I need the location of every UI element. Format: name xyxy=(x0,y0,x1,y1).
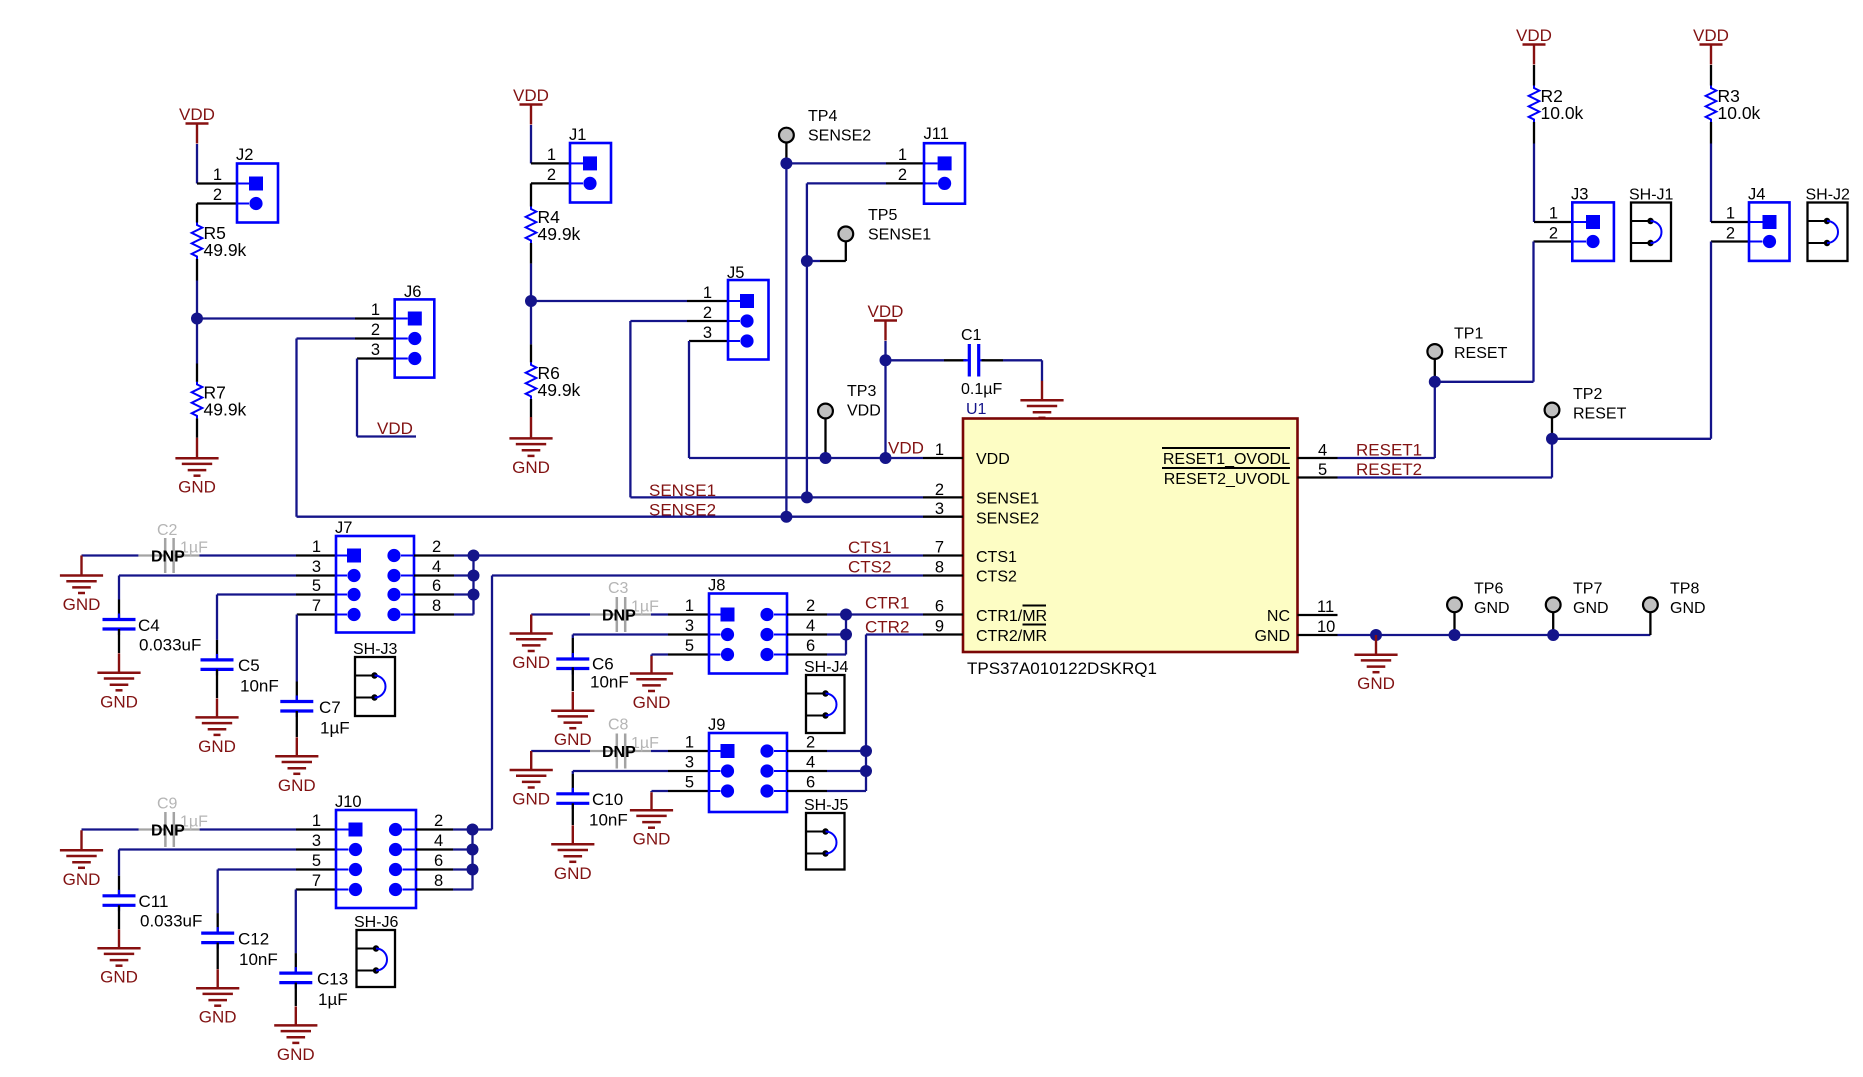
svg-text:CTS2: CTS2 xyxy=(848,558,891,577)
pin number 1 of J6 xyxy=(371,301,380,319)
wire R2 down to J3 pin 1 xyxy=(1533,144,1535,223)
shunt jumper SH-J2 xyxy=(1806,187,1851,262)
capacitor C5 10nF xyxy=(201,654,279,696)
wire C4 top lead xyxy=(118,600,120,620)
connector J3 xyxy=(1571,186,1614,261)
pin number 6 of U1 xyxy=(935,598,944,616)
svg-text:CTR1: CTR1 xyxy=(865,594,909,613)
capacitor C1 0.1uF xyxy=(961,327,1002,398)
svg-text:49.9k: 49.9k xyxy=(538,224,581,244)
svg-text:0.033uF: 0.033uF xyxy=(140,912,202,931)
wire J7 pin 8 stub xyxy=(414,613,454,615)
pin number 1 of J9 xyxy=(685,734,694,752)
wire C9 GND segment xyxy=(82,828,139,830)
wire TP3 stub xyxy=(824,418,826,458)
svg-text:7: 7 xyxy=(312,872,321,890)
wire J5 pin 2 down to SENSE1 net xyxy=(629,321,631,497)
svg-text:3: 3 xyxy=(703,324,712,342)
wire C8 to J9 pin 1 xyxy=(651,750,668,752)
wire J5 pin 2 stub xyxy=(687,320,728,322)
svg-text:SH-J5: SH-J5 xyxy=(804,797,849,814)
wire TP5 stub left xyxy=(820,260,846,262)
wire J1 pin 2 stub xyxy=(531,182,570,184)
wire GND net from U1 pin 10 xyxy=(1338,634,1651,636)
pin name CTR2/MR of U1 xyxy=(976,628,1047,645)
net label RESET2 xyxy=(1356,460,1422,479)
wire J7 pin 5 down to C5 xyxy=(216,595,218,640)
wire TP6 stub xyxy=(1453,612,1455,635)
svg-text:GND: GND xyxy=(100,692,138,711)
power flag VDD (R2 branch) xyxy=(1516,26,1552,64)
wire J9 pin 6 stub xyxy=(787,790,827,792)
pin number 5 of J7 xyxy=(312,577,321,595)
ground symbol at C3 branch xyxy=(510,615,553,673)
wire VDD row to U1 pin 1 xyxy=(689,457,923,459)
svg-text:C1: C1 xyxy=(961,327,982,344)
svg-text:3: 3 xyxy=(935,500,944,518)
pin number 3 of J7 xyxy=(312,558,321,576)
svg-text:2: 2 xyxy=(703,304,712,322)
svg-text:8: 8 xyxy=(432,597,441,615)
wire J10 pin 6 to tie xyxy=(453,868,473,870)
svg-text:6: 6 xyxy=(806,637,815,655)
wire J11 pin 1 stub xyxy=(886,162,926,164)
svg-text:6: 6 xyxy=(935,598,944,616)
pin number 3 of J9 xyxy=(685,754,694,772)
wire J9 pin 4 to tie xyxy=(827,770,866,772)
wire U1 pin 1 stub (VDD) xyxy=(923,457,963,459)
wire J3 pin 2 stub xyxy=(1534,240,1573,242)
wire J5 pin 2 left segment xyxy=(630,320,687,322)
junction TP6 on GND net xyxy=(1449,629,1461,641)
svg-text:11: 11 xyxy=(1317,598,1334,616)
wire VDD stem to J2 pin 1 row xyxy=(196,144,198,184)
wire J10 pin 2 to tie xyxy=(453,828,473,830)
pin number 2 of J8 xyxy=(806,597,815,615)
svg-text:RESET1_OVODL: RESET1_OVODL xyxy=(1163,451,1290,468)
pin name RESET2_UVODL of U1 xyxy=(1164,471,1290,488)
wire J10 pin 5 down to C12 xyxy=(217,870,219,914)
wire U1 pin 6 stub (CTR1/MR) xyxy=(923,613,963,615)
wire C12 top lead xyxy=(217,913,219,933)
wire C7 to GND xyxy=(296,711,298,737)
wire R5 bottom lead xyxy=(196,259,198,281)
junction J10 tie pin 2 xyxy=(467,824,479,836)
resistor R5 49.9k xyxy=(192,223,247,261)
connector J7 xyxy=(335,519,414,633)
wire J10 pin 3 net xyxy=(119,848,296,850)
junction J7 tie pin 2 xyxy=(468,550,480,562)
junction J9 tie pin 2 xyxy=(860,745,872,757)
net label CTS2 xyxy=(848,558,891,577)
wire SENSE2 vertical from TP4 node xyxy=(785,163,787,516)
wire J8 pin 5 net xyxy=(652,653,669,655)
svg-text:1: 1 xyxy=(547,146,556,164)
svg-text:7: 7 xyxy=(312,597,321,615)
pin name NC of U1 xyxy=(1267,608,1290,625)
junction VDD/C1 node xyxy=(880,354,892,366)
wire SENSE1 net to U1 pin 2 xyxy=(630,496,923,498)
svg-text:5: 5 xyxy=(685,774,694,792)
svg-text:49.9k: 49.9k xyxy=(538,380,581,400)
wire U1 pin 5 stub (RESET2_UVODL) xyxy=(1298,476,1338,478)
wire C12 to GND xyxy=(217,943,219,969)
test point TP4 xyxy=(779,108,871,145)
net label CTR2 xyxy=(865,618,909,637)
pin number 2 of J1 xyxy=(547,166,556,184)
wire J2 pin 2 stub xyxy=(197,202,237,204)
svg-text:6: 6 xyxy=(806,774,815,792)
wire J9 pin 3 net xyxy=(573,770,668,772)
svg-text:5: 5 xyxy=(312,577,321,595)
svg-text:VDD: VDD xyxy=(868,302,904,321)
svg-text:7: 7 xyxy=(935,539,944,557)
wire TP2 node down to RESET2 row xyxy=(1551,439,1553,478)
resistor R6 49.9k xyxy=(526,362,581,400)
wire J8 tie chain vertical xyxy=(845,615,847,655)
svg-text:6: 6 xyxy=(432,577,441,595)
pin number 2 of J7 xyxy=(432,538,441,556)
svg-text:J2: J2 xyxy=(236,146,253,164)
ground symbol at J9 pin 5 xyxy=(630,792,673,849)
ground symbol at U1 GND net xyxy=(1354,635,1397,693)
svg-text:3: 3 xyxy=(371,341,380,359)
svg-text:DNP: DNP xyxy=(151,549,185,566)
wire C11 top lead xyxy=(118,876,120,896)
svg-text:GND: GND xyxy=(199,1008,237,1027)
ground symbol at C2 branch xyxy=(60,556,103,615)
pin number 1 of J8 xyxy=(685,597,694,615)
junction J10 tie pin 4 xyxy=(467,844,479,856)
wire R2 bottom lead xyxy=(1533,122,1535,144)
wire C2 GND segment xyxy=(82,554,139,556)
pin number 1 of J5 xyxy=(703,284,712,302)
svg-text:SENSE2: SENSE2 xyxy=(649,501,716,520)
svg-text:GND: GND xyxy=(512,653,550,672)
pin number 2 of J9 xyxy=(806,734,815,752)
wire J7 pin 4 stub xyxy=(414,574,454,576)
resistor R2 10.0k xyxy=(1529,86,1584,124)
resistor R4 49.9k xyxy=(526,207,581,245)
svg-text:2: 2 xyxy=(1549,225,1558,243)
capacitor C7 1uF xyxy=(280,696,349,738)
pin number 3 of J10 xyxy=(312,832,321,850)
connector J8 xyxy=(708,577,787,674)
pin number 9 of U1 xyxy=(935,618,944,636)
svg-text:TP4: TP4 xyxy=(808,108,837,125)
resistor R3 10.0k xyxy=(1706,86,1761,124)
wire J1 pin 1 stub xyxy=(531,162,570,164)
svg-text:1: 1 xyxy=(312,812,321,830)
test point TP3 xyxy=(818,383,881,420)
wire TP2 stub xyxy=(1551,417,1553,438)
wire J6 pin 3 VDD label stub xyxy=(357,435,416,437)
wire J7 pin 7 stub xyxy=(297,613,336,615)
wire J10 pin 8 to tie xyxy=(453,888,473,890)
wire J10 pin 5 net xyxy=(218,868,296,870)
net label SENSE2 xyxy=(649,501,716,520)
wire J8 pin 3 down to C6 xyxy=(572,635,574,639)
wire C10 to GND xyxy=(572,803,574,825)
ground symbol below C13 xyxy=(274,1006,317,1064)
wire RESET1 net to U1 pin 4 xyxy=(1338,457,1435,459)
wire R3 down to J4 pin 1 xyxy=(1710,144,1712,223)
svg-text:VDD: VDD xyxy=(513,86,549,105)
wire J8 pin 4 to tie xyxy=(827,633,846,635)
pin number 7 of J10 xyxy=(312,872,321,890)
wire CTR2 net to U1 pin 9 xyxy=(866,633,923,635)
wire TP1 stub xyxy=(1434,359,1436,382)
connector J1 xyxy=(569,126,611,203)
wire U1 pin 4 stub (RESET1_OVODL) xyxy=(1298,457,1338,459)
pin number 1 of J7 xyxy=(312,538,321,556)
wire J9 pin 5 drop xyxy=(650,791,652,792)
junction TP3 on VDD row xyxy=(820,452,832,464)
wire C6 top lead xyxy=(572,638,574,658)
wire CTS2 to J10 tie chain xyxy=(473,828,493,830)
wire J7 pin 6 to tie xyxy=(454,593,474,595)
ground symbol below C11 xyxy=(97,929,140,987)
capacitor C2 1uF DNP xyxy=(138,522,208,573)
svg-text:2: 2 xyxy=(898,166,907,184)
wire TP2 node to J4 vertical xyxy=(1552,438,1711,440)
connector J11 xyxy=(924,125,966,204)
svg-text:C10: C10 xyxy=(592,790,623,809)
wire C7 top lead xyxy=(296,682,298,702)
wire C13 to GND xyxy=(295,983,297,1006)
junction J8 tie pin 4 xyxy=(840,629,852,641)
shunt jumper SH-J1 xyxy=(1629,187,1674,262)
svg-text:TP1: TP1 xyxy=(1454,326,1483,343)
pin number 5 of J10 xyxy=(312,852,321,870)
svg-text:VDD: VDD xyxy=(179,105,215,124)
wire J9 pin 3 stub xyxy=(668,770,709,772)
IC U1 TPS37A010122DSKRQ1 body xyxy=(963,401,1298,678)
junction TP1 node xyxy=(1429,376,1441,388)
svg-text:1: 1 xyxy=(935,441,944,459)
wire J10 pin 5 stub xyxy=(296,868,336,870)
svg-text:10nF: 10nF xyxy=(239,950,278,969)
wire R7 top lead xyxy=(196,364,198,382)
wire junction to J5 pin 1 xyxy=(531,300,687,302)
pin number 1 of J2 xyxy=(213,166,222,184)
capacitor C13 1uF xyxy=(279,967,348,1009)
wire J9 pin 2 stub xyxy=(787,750,827,752)
svg-text:1: 1 xyxy=(685,597,694,615)
wire J10 pin 6 stub xyxy=(416,868,453,870)
net label SENSE1 xyxy=(649,481,716,500)
svg-text:SH-J1: SH-J1 xyxy=(1629,187,1674,204)
svg-text:2: 2 xyxy=(213,186,222,204)
wire J10 tie chain vertical xyxy=(471,830,473,890)
junction TP7 on GND net xyxy=(1547,629,1559,641)
ground symbol below R7 xyxy=(175,438,218,497)
svg-text:1: 1 xyxy=(1549,205,1558,223)
svg-text:GND: GND xyxy=(198,737,236,756)
wire J9 pin 1 stub xyxy=(668,750,709,752)
svg-text:VDD: VDD xyxy=(1516,26,1552,45)
svg-text:C12: C12 xyxy=(238,930,269,949)
svg-text:10.0k: 10.0k xyxy=(1541,103,1584,123)
wire J10 pin 3 stub xyxy=(296,848,336,850)
capacitor C10 10nF xyxy=(556,788,627,830)
wire VDD stem down to J1 pin 1 row xyxy=(530,125,532,163)
svg-text:1: 1 xyxy=(312,538,321,556)
net label VDD at J6 pin 3 xyxy=(377,419,413,438)
svg-text:C5: C5 xyxy=(238,656,260,675)
svg-text:C8: C8 xyxy=(608,717,629,734)
pin name CTS1 of U1 xyxy=(976,549,1017,566)
svg-text:3: 3 xyxy=(312,558,321,576)
wire J10 pin 2 stub xyxy=(416,828,453,830)
svg-text:TP7: TP7 xyxy=(1573,581,1602,598)
pin number 1 of U1 xyxy=(935,441,944,459)
junction TP4 node xyxy=(780,157,792,169)
capacitor C4 0.033uF xyxy=(103,614,202,655)
wire J8 pin 4 stub xyxy=(787,633,827,635)
wire R4 to R6 through junction xyxy=(530,264,532,345)
ground symbol below C12 xyxy=(196,969,239,1026)
wire J6 pin 2 left segment xyxy=(297,337,356,339)
svg-text:GND: GND xyxy=(1357,674,1395,693)
wire TP4 stub xyxy=(785,143,787,164)
wire C1 GND drop xyxy=(1041,360,1043,381)
svg-text:TP5: TP5 xyxy=(868,207,897,224)
svg-text:5: 5 xyxy=(1318,461,1327,479)
svg-text:10nF: 10nF xyxy=(590,673,629,692)
junction J7 tie pin 4 xyxy=(468,570,480,582)
pin number 2 of J5 xyxy=(703,304,712,322)
pin number 6 of J7 xyxy=(432,577,441,595)
wire C10 top lead xyxy=(572,774,574,794)
svg-text:GND: GND xyxy=(1670,600,1706,617)
wire CTS2 net to U1 pin 8 xyxy=(492,574,923,576)
wire U1 pin 8 stub (CTS2) xyxy=(923,574,963,576)
svg-text:J6: J6 xyxy=(404,283,421,301)
wire J7 pin 5 net xyxy=(217,593,296,595)
wire J6 pin 2 down to SENSE2 net xyxy=(295,339,297,517)
svg-text:SENSE1: SENSE1 xyxy=(868,227,931,244)
svg-text:4: 4 xyxy=(1318,442,1327,460)
svg-text:3: 3 xyxy=(685,617,694,635)
wire J7 pin 2 stub xyxy=(414,554,454,556)
wire TP5 stub down xyxy=(845,241,847,261)
wire C1 node to C1 left plate xyxy=(886,359,945,361)
svg-text:2: 2 xyxy=(1726,225,1735,243)
wire CTS1 net J7 to U1 pin 7 xyxy=(474,554,924,556)
svg-text:TP3: TP3 xyxy=(847,383,876,400)
svg-text:10nF: 10nF xyxy=(240,677,279,696)
pin number 1 of J11 xyxy=(898,146,907,164)
junction TP2 node xyxy=(1546,433,1558,445)
svg-text:SH-J3: SH-J3 xyxy=(353,641,398,658)
svg-text:CTR1/MR: CTR1/MR xyxy=(976,608,1047,625)
wire VDD stem down to C1 node xyxy=(884,341,886,360)
svg-text:SENSE2: SENSE2 xyxy=(976,511,1039,528)
svg-text:SENSE1: SENSE1 xyxy=(976,491,1039,508)
wire J9 pin 6 to tie xyxy=(827,790,866,792)
svg-text:3: 3 xyxy=(312,832,321,850)
pin number 5 of U1 xyxy=(1318,461,1327,479)
pin number 11 of U1 xyxy=(1317,598,1334,616)
wire J10 pin 4 stub xyxy=(416,848,453,850)
wire J7 pin 3 net xyxy=(119,574,296,576)
pin name RESET1_OVODL of U1 xyxy=(1162,448,1290,468)
junction SENSE2/TP4 branch xyxy=(780,511,792,523)
junction GND symbol drop xyxy=(1370,629,1382,641)
ground symbol at C1 xyxy=(1020,381,1063,418)
svg-text:SENSE2: SENSE2 xyxy=(808,128,871,145)
wire J7 pin 2 to tie xyxy=(454,554,474,556)
svg-text:2: 2 xyxy=(434,812,443,830)
pin number 5 of J8 xyxy=(685,637,694,655)
wire C3 GND segment xyxy=(531,613,590,615)
pin name GND of U1 xyxy=(1254,628,1290,645)
svg-text:1: 1 xyxy=(371,301,380,319)
svg-text:CTR2: CTR2 xyxy=(865,618,909,637)
svg-text:GND: GND xyxy=(1573,600,1609,617)
wire J11 pin 2 stub xyxy=(886,182,926,184)
wire CTR2 vertical to J9 tie chain xyxy=(865,635,867,792)
svg-text:5: 5 xyxy=(685,637,694,655)
wire J6 pin 3 stub xyxy=(357,357,395,359)
power flag VDD (J2 branch) xyxy=(179,105,215,143)
wire J8 pin 2 stub xyxy=(787,613,827,615)
wire C4 to GND xyxy=(118,629,120,653)
wire J8 pin 5 stub xyxy=(668,653,709,655)
wire C5 to GND xyxy=(216,669,218,698)
pin number 1 of J3 xyxy=(1549,205,1558,223)
power flag VDD (R3 branch) xyxy=(1693,26,1729,64)
pin number 8 of J7 xyxy=(432,597,441,615)
pin number 2 of J6 xyxy=(371,321,380,339)
pin number 4 of J9 xyxy=(806,754,815,772)
test point TP2 xyxy=(1545,386,1627,423)
svg-text:C2: C2 xyxy=(157,522,178,539)
shunt jumper SH-J5 xyxy=(804,797,849,870)
svg-text:5: 5 xyxy=(312,852,321,870)
svg-text:U1: U1 xyxy=(966,401,987,418)
svg-text:RESET2_UVODL: RESET2_UVODL xyxy=(1164,471,1290,488)
svg-text:GND: GND xyxy=(278,776,316,795)
wire J3 pin 2 down xyxy=(1532,242,1534,382)
pin number 8 of J10 xyxy=(434,872,443,890)
svg-text:C3: C3 xyxy=(608,580,629,597)
wire U1 pin 2 stub (SENSE1) xyxy=(923,496,963,498)
capacitor C3 1uF DNP xyxy=(590,580,659,632)
wire J10 pin 3 down to C11 xyxy=(118,850,120,876)
pin number 7 of U1 xyxy=(935,539,944,557)
wire C6 to GND xyxy=(572,667,574,691)
svg-text:VDD: VDD xyxy=(377,419,413,438)
svg-text:GND: GND xyxy=(1474,600,1510,617)
svg-text:GND: GND xyxy=(178,478,216,497)
wire R2 corner to J3 pin 1 stub xyxy=(1534,221,1572,223)
svg-text:VDD: VDD xyxy=(976,451,1010,468)
svg-text:CTR2/MR: CTR2/MR xyxy=(976,628,1047,645)
wire R6 to GND xyxy=(530,399,532,417)
capacitor C9 1uF DNP xyxy=(139,796,209,848)
wire C1 right lead xyxy=(982,359,1004,361)
wire J10 pin 4 to tie xyxy=(453,848,473,850)
svg-text:RESET: RESET xyxy=(1454,345,1508,362)
svg-text:1: 1 xyxy=(685,734,694,752)
svg-text:4: 4 xyxy=(432,558,441,576)
wire J11 pin 2 left segment xyxy=(807,182,886,184)
ground symbol at C8 branch xyxy=(510,751,553,809)
svg-text:TPS37A010122DSKRQ1: TPS37A010122DSKRQ1 xyxy=(967,659,1157,678)
power flag VDD (C1 branch) xyxy=(868,302,904,340)
